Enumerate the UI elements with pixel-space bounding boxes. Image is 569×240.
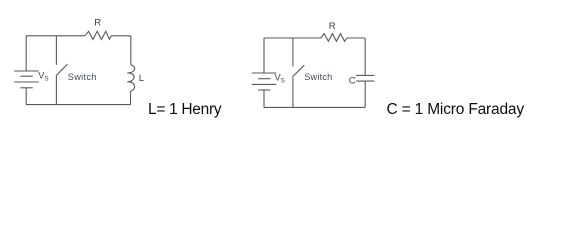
resistor R2 (right circuit, zigzag): [321, 34, 347, 42]
wire right vertical lower (right circuit): [364, 81, 366, 107]
wire left vertical lower (right circuit): [263, 90, 265, 107]
wire bottom horizontal (left circuit): [26, 104, 131, 106]
switch S2 (right circuit) lever: [293, 65, 304, 76]
capacitor C1 plate top: [356, 74, 374, 76]
switch S1 (left circuit) top contact wire: [55, 36, 57, 65]
wire right vertical upper (right circuit): [364, 38, 366, 75]
wire left vertical lower (left circuit): [25, 88, 27, 105]
switch S2 (right circuit) top contact wire: [292, 38, 294, 66]
svg-text:VS: VS: [38, 71, 48, 83]
svg-text:C = 1 Micro Faraday: C = 1 Micro Faraday: [387, 101, 525, 118]
inductor L1 coil: [127, 65, 134, 91]
svg-text:Switch: Switch: [68, 72, 97, 82]
switch S1 (left circuit) bottom contact wire: [55, 75, 57, 104]
svg-text:L: L: [139, 73, 144, 84]
wire top-right horizontal (right circuit): [347, 37, 365, 39]
svg-text:R: R: [329, 21, 336, 32]
battery Vs (left circuit) plates: [14, 70, 39, 72]
wire top-left horizontal (right circuit): [264, 37, 321, 39]
wire top-right horizontal (left circuit): [111, 35, 131, 37]
wire left vertical upper (left circuit): [25, 36, 27, 71]
battery Vs (right circuit) plates: [252, 72, 276, 74]
wire left vertical upper (right circuit): [263, 38, 265, 73]
svg-text:Switch: Switch: [304, 72, 332, 82]
svg-text:R: R: [94, 18, 101, 29]
wire right vertical upper (left circuit): [130, 36, 132, 65]
switch S2 (right circuit) bottom contact wire: [292, 76, 294, 107]
capacitor C1 plate bottom: [356, 80, 374, 82]
wire top-left horizontal (left circuit): [26, 35, 85, 37]
switch S1 (left circuit) lever: [56, 64, 67, 75]
wire bottom horizontal (right circuit): [264, 106, 365, 108]
svg-text:L= 1 Henry: L= 1 Henry: [148, 101, 222, 118]
svg-text:VS: VS: [275, 72, 285, 84]
svg-text:C: C: [349, 76, 356, 87]
wire right vertical lower (left circuit): [130, 91, 132, 105]
resistor R1 (left circuit, zigzag): [85, 31, 111, 39]
